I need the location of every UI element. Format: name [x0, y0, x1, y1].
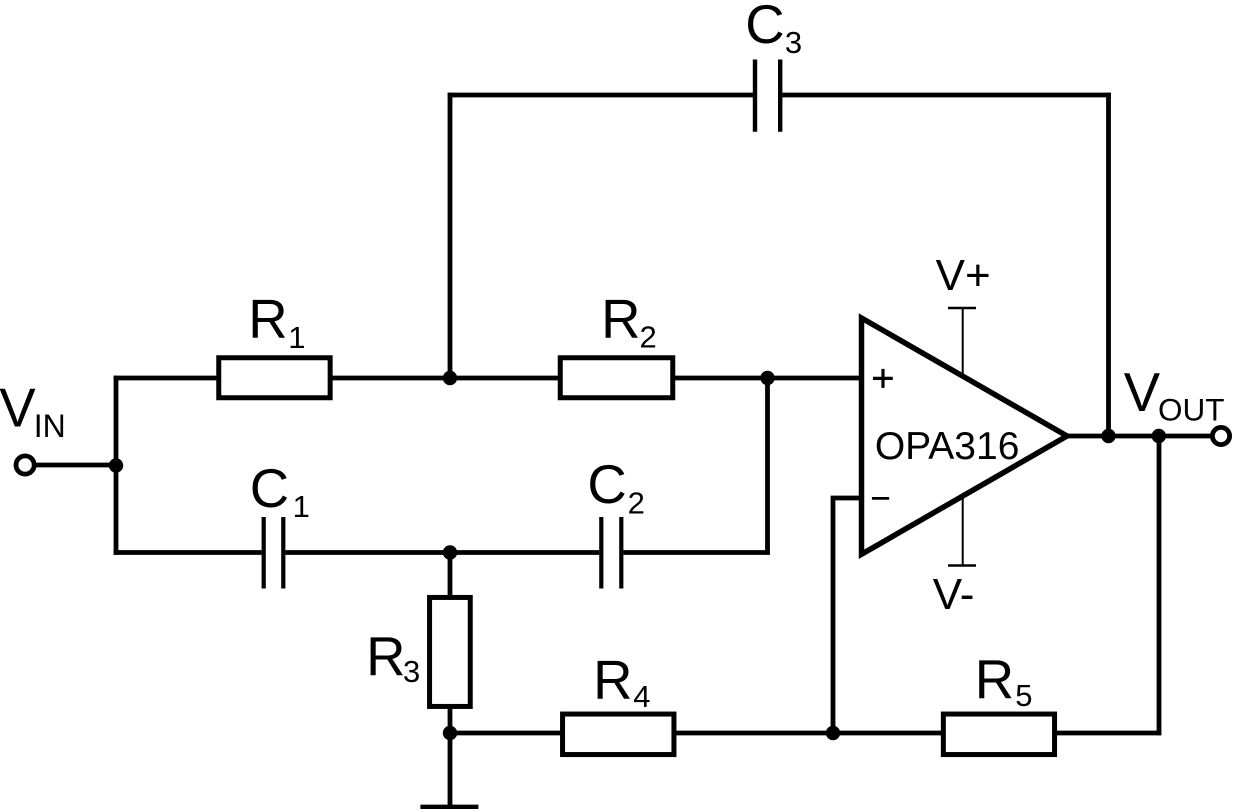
- label V+: [936, 251, 991, 300]
- svg-text:OPA316: OPA316: [875, 425, 1020, 468]
- svg-text:IN: IN: [34, 408, 66, 444]
- svg-text:V-: V-: [933, 570, 975, 619]
- label R1: [248, 288, 305, 355]
- capacitor C3: [755, 60, 780, 132]
- svg-text:R: R: [975, 649, 1014, 710]
- ground: [420, 805, 478, 809]
- wire: C3 left leg: [448, 93, 453, 378]
- svg-text:V+: V+: [936, 251, 991, 300]
- label VOUT: [1124, 362, 1225, 428]
- wire: C row left segment: [114, 550, 262, 555]
- wire: C3 top-left segment: [448, 93, 753, 98]
- label V-: [933, 570, 975, 619]
- capacitor C1: [264, 517, 284, 589]
- label R3: [366, 626, 420, 689]
- svg-text:2: 2: [628, 486, 645, 521]
- junction: R4 / inverting riser node: [826, 726, 840, 740]
- label C3: [745, 0, 802, 60]
- wire: C row right segment: [623, 550, 769, 555]
- terminal VIN: [16, 456, 34, 474]
- op-amp V+ supply tick: [948, 307, 976, 309]
- wire: output row: [1067, 434, 1211, 439]
- resistor R3: [430, 597, 471, 706]
- wire: C3 right leg (to output node): [1106, 93, 1111, 436]
- capacitor C2: [601, 517, 621, 589]
- svg-text:4: 4: [633, 679, 650, 714]
- svg-text:3: 3: [403, 654, 420, 689]
- op-amp U1 triangle: [862, 318, 1068, 554]
- op-amp V- supply tick: [948, 564, 976, 566]
- svg-text:R: R: [601, 288, 640, 349]
- svg-text:OUT: OUT: [1158, 392, 1225, 428]
- wire: VIN lead: [37, 463, 119, 468]
- wire: R3 top lead: [448, 550, 453, 597]
- svg-text:2: 2: [640, 319, 657, 354]
- op-amp inverting pin marker -: [872, 497, 889, 500]
- wire: input column (R1 row to C1 row): [114, 376, 119, 555]
- label C1: [250, 458, 310, 524]
- resistor R5: [943, 714, 1054, 755]
- junction: R1-R2 / C3 node: [443, 371, 457, 385]
- junction: VIN node: [109, 458, 123, 472]
- junction: R2 output node: [760, 371, 774, 385]
- wire: R4 row left segment: [448, 731, 562, 736]
- wire: ground lead: [448, 733, 453, 806]
- wire: R4 row middle segment (R4 to R5): [675, 731, 944, 736]
- svg-text:R: R: [593, 650, 632, 711]
- svg-text:5: 5: [1015, 678, 1032, 713]
- resistor R1: [219, 358, 330, 398]
- label OPA316: [875, 425, 1020, 468]
- svg-text:3: 3: [785, 25, 802, 60]
- op-amp V- supply pin line: [962, 497, 964, 566]
- junction: output / R5 node: [1152, 429, 1166, 443]
- svg-text:V: V: [0, 378, 36, 439]
- svg-text:R: R: [248, 288, 287, 349]
- label R5: [975, 649, 1033, 713]
- wire: C3 top-right segment: [782, 93, 1111, 98]
- svg-text:C: C: [587, 454, 626, 515]
- terminal VOUT: [1212, 427, 1229, 444]
- svg-text:V: V: [1124, 362, 1161, 423]
- junction: output / C3 node: [1101, 429, 1115, 443]
- wire: C row middle segment: [285, 550, 599, 555]
- svg-text:R: R: [366, 626, 405, 687]
- resistor R2: [560, 358, 673, 398]
- junction: R3 / R4 / ground node: [443, 726, 457, 740]
- junction: C row / R3 node: [443, 545, 457, 559]
- svg-text:C: C: [745, 0, 784, 55]
- wire: R3 bottom lead: [448, 706, 453, 735]
- label VIN: [0, 378, 66, 444]
- wire: inverting input lead and riser: [833, 498, 862, 733]
- op-amp non-inverting pin marker +: [873, 369, 893, 388]
- label R2: [601, 288, 657, 354]
- wire: R5 right segment: [1055, 731, 1161, 736]
- resistor R4: [563, 714, 674, 755]
- wire: R5 riser (feedback to output): [1157, 434, 1162, 736]
- svg-text:C: C: [250, 458, 289, 519]
- wire: C2 output riser: [765, 378, 770, 555]
- svg-text:1: 1: [293, 489, 310, 524]
- label C2: [587, 454, 644, 520]
- label R4: [593, 650, 650, 714]
- svg-text:1: 1: [288, 320, 305, 355]
- wire: non-inverting row (R1/R2 row): [114, 376, 862, 381]
- op-amp V+ supply pin line: [962, 308, 964, 375]
